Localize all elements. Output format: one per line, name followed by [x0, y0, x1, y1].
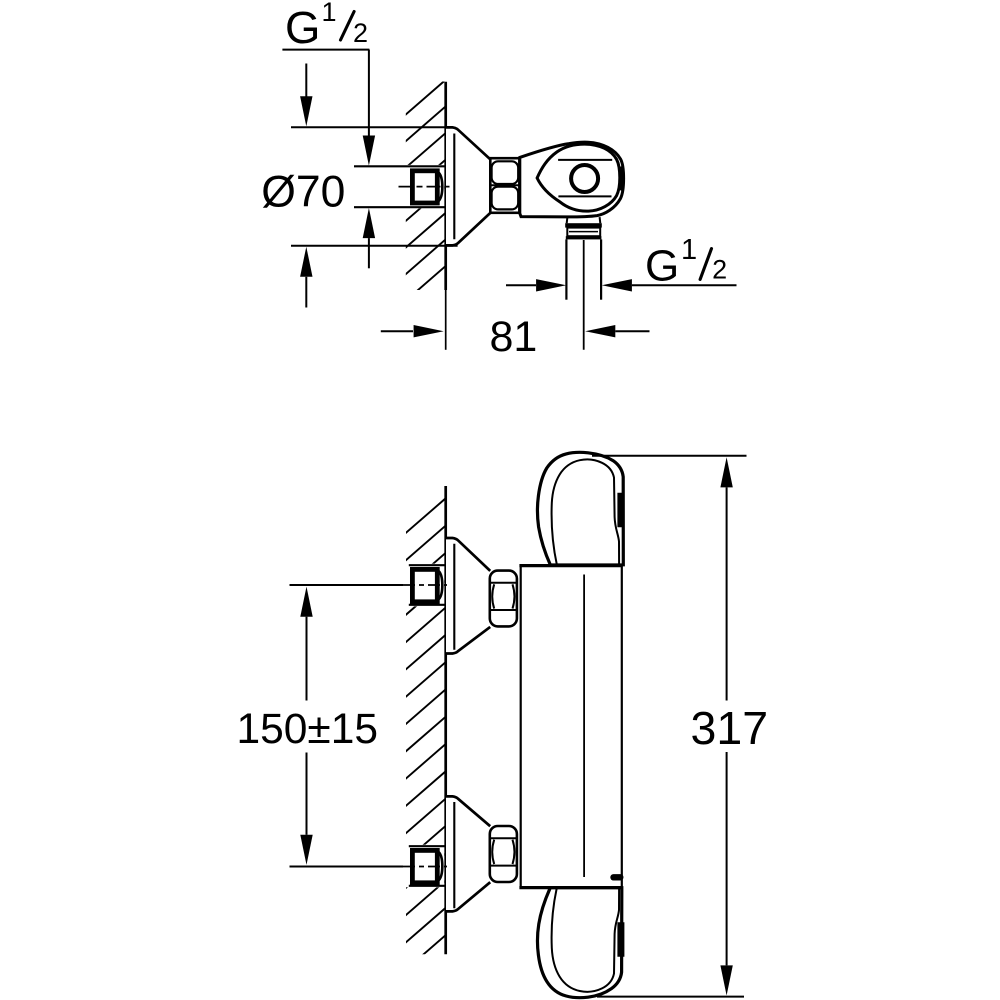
svg-text:81: 81: [490, 313, 538, 361]
svg-text:1: 1: [322, 0, 337, 27]
svg-text:G: G: [285, 2, 320, 53]
svg-text:G: G: [645, 241, 679, 290]
svg-text:2: 2: [353, 18, 368, 48]
svg-text:317: 317: [691, 702, 769, 754]
svg-text:Ø70: Ø70: [261, 167, 345, 216]
svg-text:1: 1: [681, 234, 697, 266]
svg-text:150±15: 150±15: [237, 706, 379, 753]
svg-text:2: 2: [712, 255, 727, 285]
